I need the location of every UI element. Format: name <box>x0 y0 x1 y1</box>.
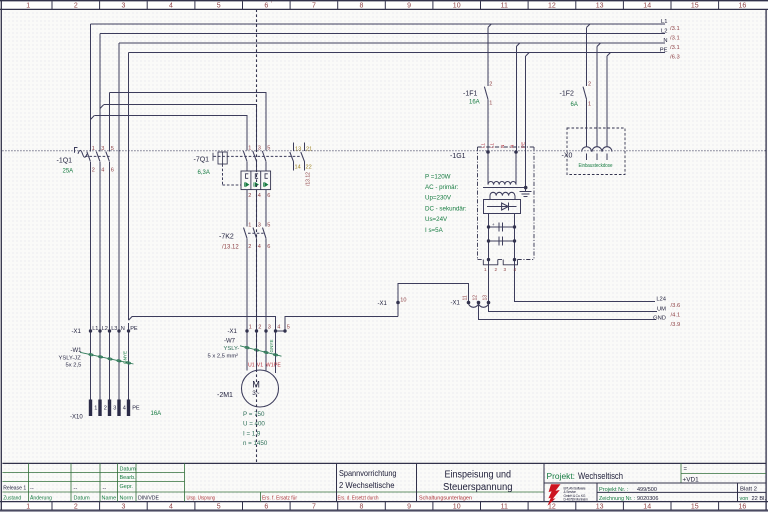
svg-text:25A: 25A <box>63 168 74 174</box>
svg-text:4: 4 <box>277 324 280 330</box>
svg-text:11: 11 <box>501 504 508 511</box>
svg-text:Us=24V: Us=24V <box>425 216 448 223</box>
svg-text:12: 12 <box>473 295 479 301</box>
svg-text:5: 5 <box>267 222 270 228</box>
svg-text:L2: L2 <box>661 28 667 34</box>
svg-text:-X10: -X10 <box>70 415 83 421</box>
svg-text:N: N <box>121 326 125 332</box>
svg-text:11: 11 <box>501 3 508 10</box>
svg-text:-2M1: -2M1 <box>217 392 233 399</box>
svg-text:1: 1 <box>26 504 30 511</box>
svg-text:Release 1: Release 1 <box>3 486 26 492</box>
svg-text:P =120W: P =120W <box>425 173 451 180</box>
svg-text:/4.1: /4.1 <box>671 313 681 319</box>
svg-text:-7K2: -7K2 <box>219 234 234 241</box>
svg-text:-W1: -W1 <box>71 348 83 354</box>
svg-text:4: 4 <box>101 167 104 173</box>
svg-text:PE: PE <box>660 47 668 53</box>
svg-text:1: 1 <box>489 100 492 106</box>
svg-text:Einbausteckdose: Einbausteckdose <box>579 163 613 169</box>
svg-text:3: 3 <box>121 504 125 511</box>
svg-text:8: 8 <box>360 3 364 10</box>
svg-text:D-40789 Monheim: D-40789 Monheim <box>564 498 589 502</box>
svg-text:--: -- <box>30 486 34 492</box>
svg-text:+VD1: +VD1 <box>683 476 700 483</box>
svg-text:P = 750: P = 750 <box>243 411 265 418</box>
svg-text:/3.9: /3.9 <box>671 322 681 328</box>
svg-text:12: 12 <box>548 3 556 10</box>
svg-text:3: 3 <box>504 267 507 272</box>
svg-text:DIN/VDE: DIN/VDE <box>138 496 159 502</box>
svg-text:22 Bl.: 22 Bl. <box>752 496 767 502</box>
svg-text:Bearb.: Bearb. <box>120 475 137 481</box>
svg-text:U1: U1 <box>248 363 255 369</box>
svg-text:PE: PE <box>274 363 281 369</box>
svg-text:6: 6 <box>111 167 114 173</box>
svg-text:L24: L24 <box>656 297 666 303</box>
svg-text:16: 16 <box>739 3 747 10</box>
svg-text:6: 6 <box>264 3 268 10</box>
svg-text:Projekt Nr. :: Projekt Nr. : <box>599 487 629 493</box>
svg-text:Blatt 2: Blatt 2 <box>740 486 757 492</box>
svg-text:4: 4 <box>258 193 261 199</box>
svg-text:6: 6 <box>267 193 270 199</box>
svg-text:Gepr.: Gepr. <box>120 484 134 490</box>
svg-text:AC - primär:: AC - primär: <box>425 184 459 191</box>
svg-text:4: 4 <box>514 267 517 272</box>
svg-text:3: 3 <box>113 406 116 412</box>
svg-text:Norm: Norm <box>120 496 134 502</box>
svg-text:W1: W1 <box>266 363 274 369</box>
svg-text:5 x 2,5 mm²: 5 x 2,5 mm² <box>208 353 239 359</box>
svg-text:-1F2: -1F2 <box>560 91 575 98</box>
svg-text:11: 11 <box>463 295 469 300</box>
svg-text:4: 4 <box>123 406 126 412</box>
svg-text:13: 13 <box>295 147 301 153</box>
svg-text:--: -- <box>103 486 107 492</box>
svg-text:9: 9 <box>407 504 411 511</box>
svg-text:/6.3: /6.3 <box>670 55 680 61</box>
svg-text:L1: L1 <box>92 326 98 332</box>
svg-text:/13.12: /13.12 <box>306 172 312 186</box>
svg-text:10: 10 <box>453 504 461 511</box>
svg-text:13: 13 <box>596 504 604 511</box>
svg-text:U = 400: U = 400 <box>243 421 265 428</box>
svg-text:Zeichnung Nr. :: Zeichnung Nr. : <box>599 496 636 502</box>
svg-text:-7Q1: -7Q1 <box>194 157 210 164</box>
svg-text:N: N <box>510 145 515 148</box>
svg-text:2: 2 <box>92 167 95 173</box>
svg-text:5: 5 <box>217 504 221 511</box>
svg-text:/3.1: /3.1 <box>670 45 680 51</box>
svg-text:Änderung: Änderung <box>30 495 52 502</box>
svg-text:L3: L3 <box>111 326 117 332</box>
svg-text:PE: PE <box>521 142 526 148</box>
svg-text:8: 8 <box>360 504 364 511</box>
svg-text:von: von <box>740 496 749 502</box>
svg-text:13: 13 <box>596 3 604 10</box>
svg-text:5: 5 <box>287 324 290 330</box>
svg-text:21: 21 <box>306 147 312 153</box>
svg-text:5x 2,5: 5x 2,5 <box>66 362 82 368</box>
svg-text:GND: GND <box>653 316 666 322</box>
svg-text:1: 1 <box>94 406 97 412</box>
svg-text:/3.1: /3.1 <box>670 26 680 32</box>
svg-text:Einspeisung und: Einspeisung und <box>445 470 512 481</box>
svg-text:15: 15 <box>691 504 699 511</box>
svg-text:Ers. d. Ersetzt durch: Ers. d. Ersetzt durch <box>338 495 379 501</box>
svg-text:YSLY-JZ: YSLY-JZ <box>59 355 82 361</box>
svg-text:3: 3 <box>258 222 261 228</box>
svg-text:Ers. f. Ersatz für: Ers. f. Ersatz für <box>262 495 297 501</box>
svg-text:L1: L1 <box>490 142 495 148</box>
svg-text:22: 22 <box>306 164 312 170</box>
svg-text:N: N <box>500 145 505 148</box>
svg-text:1: 1 <box>249 324 252 330</box>
svg-text:Datum: Datum <box>74 496 91 502</box>
svg-text:4: 4 <box>169 504 173 511</box>
svg-text:Datum: Datum <box>120 467 137 473</box>
svg-text:GNYE: GNYE <box>123 351 128 364</box>
svg-text:=: = <box>684 467 688 473</box>
svg-text:14: 14 <box>295 164 301 170</box>
svg-text:-1F1: -1F1 <box>463 91 478 98</box>
svg-text:7: 7 <box>312 3 316 10</box>
svg-text:1: 1 <box>484 267 487 272</box>
svg-text:UM: UM <box>657 307 666 313</box>
svg-text:9: 9 <box>407 3 411 10</box>
svg-text:/3.1: /3.1 <box>670 36 680 42</box>
svg-text:V1: V1 <box>257 363 263 369</box>
svg-text:-W7: -W7 <box>224 339 236 345</box>
svg-text:10: 10 <box>400 298 406 304</box>
svg-text:-1Q1: -1Q1 <box>57 158 73 165</box>
svg-text:14: 14 <box>643 504 651 511</box>
svg-text:2: 2 <box>495 267 498 272</box>
svg-text:PE: PE <box>132 406 140 412</box>
svg-text:-X0: -X0 <box>562 153 573 160</box>
svg-text:N: N <box>663 38 667 44</box>
svg-text:1: 1 <box>248 222 251 228</box>
svg-text:13: 13 <box>483 295 489 301</box>
svg-text:6,3A: 6,3A <box>198 170 210 176</box>
svg-text:Spannvorrichtung: Spannvorrichtung <box>339 468 397 478</box>
svg-text:YSLY-: YSLY- <box>224 346 240 352</box>
svg-text:16A: 16A <box>151 411 162 417</box>
svg-text:16A: 16A <box>469 100 480 106</box>
svg-text:2 Wechseltische: 2 Wechseltische <box>339 480 395 490</box>
svg-text:2: 2 <box>588 81 591 87</box>
svg-text:Projekt:: Projekt: <box>547 471 576 481</box>
svg-text:10: 10 <box>453 3 461 10</box>
svg-text:12: 12 <box>548 504 556 511</box>
svg-text:L1: L1 <box>481 142 486 148</box>
svg-text:I s=5A: I s=5A <box>425 227 444 234</box>
svg-text:/3.6: /3.6 <box>671 303 681 309</box>
svg-text:Wechseltisch: Wechseltisch <box>578 471 623 481</box>
svg-text:Ursp. Ursprung: Ursp. Ursprung <box>187 495 216 501</box>
svg-text:16: 16 <box>739 504 747 511</box>
svg-text:499/500: 499/500 <box>637 487 657 493</box>
svg-text:1: 1 <box>26 3 30 10</box>
svg-text:-X1: -X1 <box>451 301 461 307</box>
svg-text:2: 2 <box>104 406 107 412</box>
svg-text:--: -- <box>74 486 78 492</box>
svg-text:2: 2 <box>74 3 78 10</box>
svg-text:9020306: 9020306 <box>637 496 658 502</box>
svg-text:2: 2 <box>74 504 78 511</box>
svg-text:PE: PE <box>130 326 138 332</box>
svg-text:2: 2 <box>248 244 251 250</box>
svg-text:-1G1: -1G1 <box>450 153 466 160</box>
svg-text:3: 3 <box>268 324 271 330</box>
svg-text:6: 6 <box>264 504 268 511</box>
svg-text:DC - sekundär:: DC - sekundär: <box>425 205 467 212</box>
svg-text:2: 2 <box>489 81 492 87</box>
svg-text:4: 4 <box>258 244 261 250</box>
svg-text:+: + <box>492 222 495 227</box>
svg-text:-X1: -X1 <box>72 329 82 335</box>
svg-text:4: 4 <box>169 3 173 10</box>
svg-text:2: 2 <box>248 193 251 199</box>
svg-text:Schaltungsunterlagen: Schaltungsunterlagen <box>419 495 472 501</box>
svg-text:6A: 6A <box>571 102 578 108</box>
svg-text:6: 6 <box>267 244 270 250</box>
svg-text:-X1: -X1 <box>378 301 388 307</box>
svg-text:15: 15 <box>691 3 699 10</box>
svg-text:Name: Name <box>102 496 117 502</box>
svg-text:I = 1,9: I = 1,9 <box>243 430 261 437</box>
svg-text:/13.12: /13.12 <box>222 245 239 251</box>
svg-text:2: 2 <box>258 324 261 330</box>
svg-text:Zustand: Zustand <box>3 496 21 502</box>
svg-text:14: 14 <box>643 3 651 10</box>
svg-text:1: 1 <box>588 101 591 107</box>
svg-text:Steuerspannung: Steuerspannung <box>443 482 513 493</box>
svg-text:3: 3 <box>121 3 125 10</box>
svg-text:-X1: -X1 <box>228 329 238 335</box>
svg-text:L2: L2 <box>102 326 108 332</box>
svg-text:GNYE: GNYE <box>269 339 274 352</box>
svg-text:5: 5 <box>217 3 221 10</box>
svg-text:n = 1450: n = 1450 <box>243 440 268 447</box>
svg-text:Up=230V: Up=230V <box>425 195 452 202</box>
svg-text:L1: L1 <box>661 19 667 25</box>
svg-text:': ' <box>271 2 272 8</box>
svg-text:7: 7 <box>312 504 316 511</box>
